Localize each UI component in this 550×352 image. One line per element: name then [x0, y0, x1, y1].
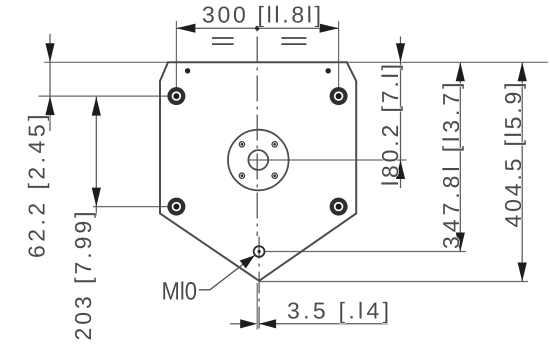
- arrow 62.2 top: [45, 43, 54, 62]
- dimension 3.5 line right segment: [259, 323, 388, 325]
- bolt hole top-right: [330, 87, 348, 105]
- bolt hole bottom-right: [330, 198, 348, 216]
- center hole inner: [248, 150, 268, 170]
- dot near top-left hole: [185, 68, 190, 73]
- dimension 180.2 line: [400, 37, 402, 189]
- plate outline: [160, 62, 356, 280]
- arrow 300 left: [176, 24, 195, 33]
- center hole outer: [228, 130, 289, 191]
- dimension 203 line: [95, 97, 97, 216]
- node dot centerline on 300 dim: [255, 26, 260, 31]
- arrow 404.5 top: [518, 62, 527, 81]
- arrow 203 top: [92, 97, 101, 116]
- small hole around center top-right: [272, 142, 277, 147]
- dimension 3.5 line left segment: [230, 323, 241, 325]
- leader M10 arrowhead: [240, 255, 255, 268]
- centering mark left: [212, 38, 234, 44]
- dimension 347.81 line: [459, 62, 461, 251]
- arrow 347.81 bottom: [456, 233, 465, 252]
- M10 hole circle: [254, 246, 265, 257]
- arrow 180.2 top: [396, 43, 405, 62]
- arrow 180.2 bottom: [396, 160, 405, 179]
- extension line bottom-left hole row: [93, 206, 168, 208]
- label M10: [162, 278, 197, 306]
- svg-text:3.5 [.l4]: 3.5 [.l4]: [287, 297, 389, 323]
- extension line M10 row: [265, 251, 466, 253]
- dimension 404.5 line: [521, 62, 523, 281]
- svg-text:404.5 [l5.9]: 404.5 [l5.9]: [500, 83, 526, 228]
- extension line bottom tip row: [259, 281, 528, 283]
- arrow 404.5 bottom: [518, 263, 527, 282]
- centerline vertical offset through M10: [258, 237, 260, 330]
- dot near top-right hole: [326, 68, 331, 73]
- arrow 203 bottom: [92, 188, 101, 207]
- extension line top-left hole row: [39, 95, 168, 97]
- centering mark right: [281, 38, 306, 44]
- arrow 3.5 left: [240, 319, 257, 328]
- dimension 62.2 line: [49, 34, 51, 131]
- extension line right hole column: [338, 21, 340, 105]
- extension line center hole row: [249, 159, 407, 161]
- svg-text:300 [ll.8l]: 300 [ll.8l]: [202, 1, 321, 27]
- small hole around center top-left: [239, 142, 244, 147]
- svg-text:Ml0: Ml0: [162, 278, 197, 306]
- arrow 300 right: [320, 24, 339, 33]
- bolt hole bottom-left: [167, 198, 185, 216]
- small hole around center bottom-right: [272, 173, 277, 178]
- leader M10: [199, 255, 255, 289]
- arrow 3.5 right: [259, 319, 276, 328]
- arrow 347.81 top: [456, 62, 465, 81]
- line bottom offset for 3.5 dim: [256, 283, 258, 330]
- svg-text:l80.2 [7.l]: l80.2 [7.l]: [377, 64, 403, 186]
- bolt hole top-left: [167, 87, 185, 105]
- svg-text:62.2 [2.45]: 62.2 [2.45]: [24, 115, 50, 259]
- dimension 300 line: [176, 27, 338, 29]
- extension line left hole column: [175, 21, 177, 105]
- arrow 62.2 bottom: [45, 96, 54, 115]
- centerline vertical main: [256, 29, 258, 237]
- extension line top edge horizontal: [44, 61, 548, 63]
- small hole around center bottom-left: [239, 173, 244, 178]
